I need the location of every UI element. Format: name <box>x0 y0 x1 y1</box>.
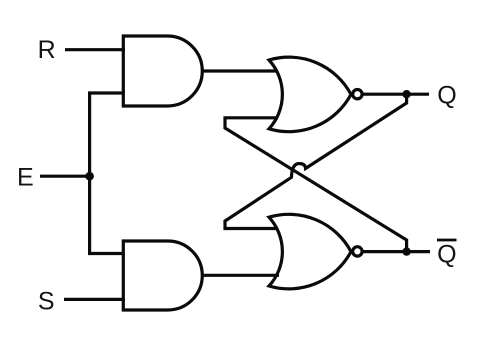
nor-gate U4 <box>269 214 351 289</box>
node E junction <box>85 172 94 181</box>
svg-text:R: R <box>38 36 56 64</box>
wire E branch to U1 and U2 <box>90 93 125 254</box>
node Qbar <box>402 247 410 255</box>
wire U4 output to Qbar <box>363 250 430 253</box>
wire U3 output to Q <box>363 93 429 96</box>
svg-text:Q: Q <box>437 81 456 109</box>
svg-text:E: E <box>17 164 34 192</box>
wire U1 output to U3 <box>202 69 278 72</box>
node Q <box>402 90 410 98</box>
wire S to U2 <box>64 298 125 301</box>
and-gate U2 <box>123 241 202 310</box>
and-gate U1 <box>123 36 202 106</box>
wire U2 output to U4 <box>202 274 279 277</box>
wire R to U1 <box>65 48 125 51</box>
svg-text:Q: Q <box>437 240 456 268</box>
nor-gate U3 <box>269 57 351 132</box>
wire feedback Q to U4 input (hop over) <box>225 94 407 228</box>
wire E to junction <box>40 175 90 178</box>
bubble U4 <box>353 247 362 256</box>
svg-text:S: S <box>38 288 55 316</box>
bubble U3 <box>353 90 362 99</box>
label Qbar overbar <box>437 239 457 242</box>
wire feedback Qbar to U3 input <box>225 118 407 252</box>
